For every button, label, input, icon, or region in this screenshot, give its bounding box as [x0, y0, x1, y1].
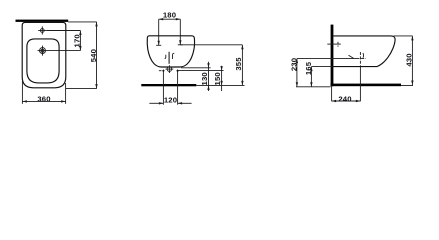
deck extension line to 430 dimension — [394, 35, 413, 37]
svg-text:165: 165 — [304, 61, 313, 75]
floor bar (front view) — [141, 84, 196, 86]
bidet inner bowl outline (plan view) — [27, 39, 59, 83]
svg-text:430: 430 — [405, 53, 414, 66]
leader from underside to 165 dimension — [311, 66, 333, 68]
leader line from drain hole to 170 dimension — [48, 50, 81, 52]
top leader from deck holes to 355 dimension — [180, 44, 242, 46]
dimension 430 (side view) — [411, 36, 413, 85]
360 left extension line — [21, 81, 23, 104]
leader from body underside to 130 dimension — [181, 67, 211, 69]
180 right extension line with arrow onto deck — [178, 19, 183, 45]
wall section line (side view) — [331, 25, 334, 87]
floor extension line to right dimensions — [196, 84, 244, 86]
dimension 165 (side view) — [310, 67, 312, 87]
base extension line to 430 dimension — [401, 85, 413, 87]
240 right extension line (drain centerline) — [359, 67, 361, 101]
floor/base bar (side view) — [331, 84, 401, 87]
fixing hole cross on wall (side view) — [327, 42, 341, 47]
svg-text:120: 120 — [164, 96, 177, 105]
svg-text:230: 230 — [289, 58, 298, 71]
540 top extension line (from wall) — [68, 21, 96, 23]
bidet body outline (front view) — [147, 36, 194, 67]
wall section bar (plan view) — [16, 20, 69, 22]
dimension 130 (front view, outside arrows) — [207, 62, 209, 91]
dimension 180 (front view, top) — [159, 18, 181, 20]
leader from tap centerline to 230 dimension — [297, 58, 356, 60]
360 right extension line — [65, 83, 67, 104]
svg-text:240: 240 — [338, 94, 351, 103]
dimension 120 (front view, outside arrows) — [149, 102, 191, 104]
120 right extension line — [177, 72, 179, 105]
leader line from faucet hole to 170 dimension — [46, 30, 80, 32]
tap centerline (side view, dashed) — [349, 52, 367, 67]
right anchor bolt mark (front view) — [176, 69, 179, 72]
svg-text:150: 150 — [213, 72, 222, 85]
dimension 240 (side view) — [332, 100, 361, 102]
drain target symbol (front view) — [166, 65, 174, 73]
bidet profile outline (side view) — [333, 36, 395, 67]
120 left extension line — [162, 72, 164, 105]
svg-text:540: 540 — [89, 49, 98, 62]
floor extension line to left dimensions (side view) — [296, 86, 331, 88]
drain hole target symbol (plan view) — [38, 46, 48, 56]
540 bottom extension line (from rim bottom) — [66, 88, 97, 90]
180 left extension line with arrow onto deck — [156, 19, 161, 45]
240 left extension line (wall face) — [331, 87, 333, 102]
svg-text:180: 180 — [163, 10, 176, 19]
bidet outer rim outline (plan view) — [22, 22, 66, 87]
tap/overflow symbol (front view) — [165, 52, 175, 64]
dimension 360 (plan view) — [22, 100, 65, 102]
svg-text:355: 355 — [234, 57, 243, 71]
left anchor bolt mark (front view) — [159, 69, 165, 72]
dimension 540 (plan view) — [95, 22, 97, 89]
svg-text:130: 130 — [200, 72, 209, 85]
dimension 230 (side view) — [296, 59, 298, 87]
dimension 150 (front view, outside arrows) — [220, 66, 222, 91]
leader from anchor bolts to 150 dimension — [178, 70, 224, 72]
dimension 355 (front view) — [241, 45, 243, 86]
faucet hole target symbol (plan view) — [38, 26, 46, 34]
svg-text:360: 360 — [37, 94, 50, 103]
dimension 170 (plan view) — [79, 31, 81, 51]
svg-text:170: 170 — [72, 34, 81, 47]
